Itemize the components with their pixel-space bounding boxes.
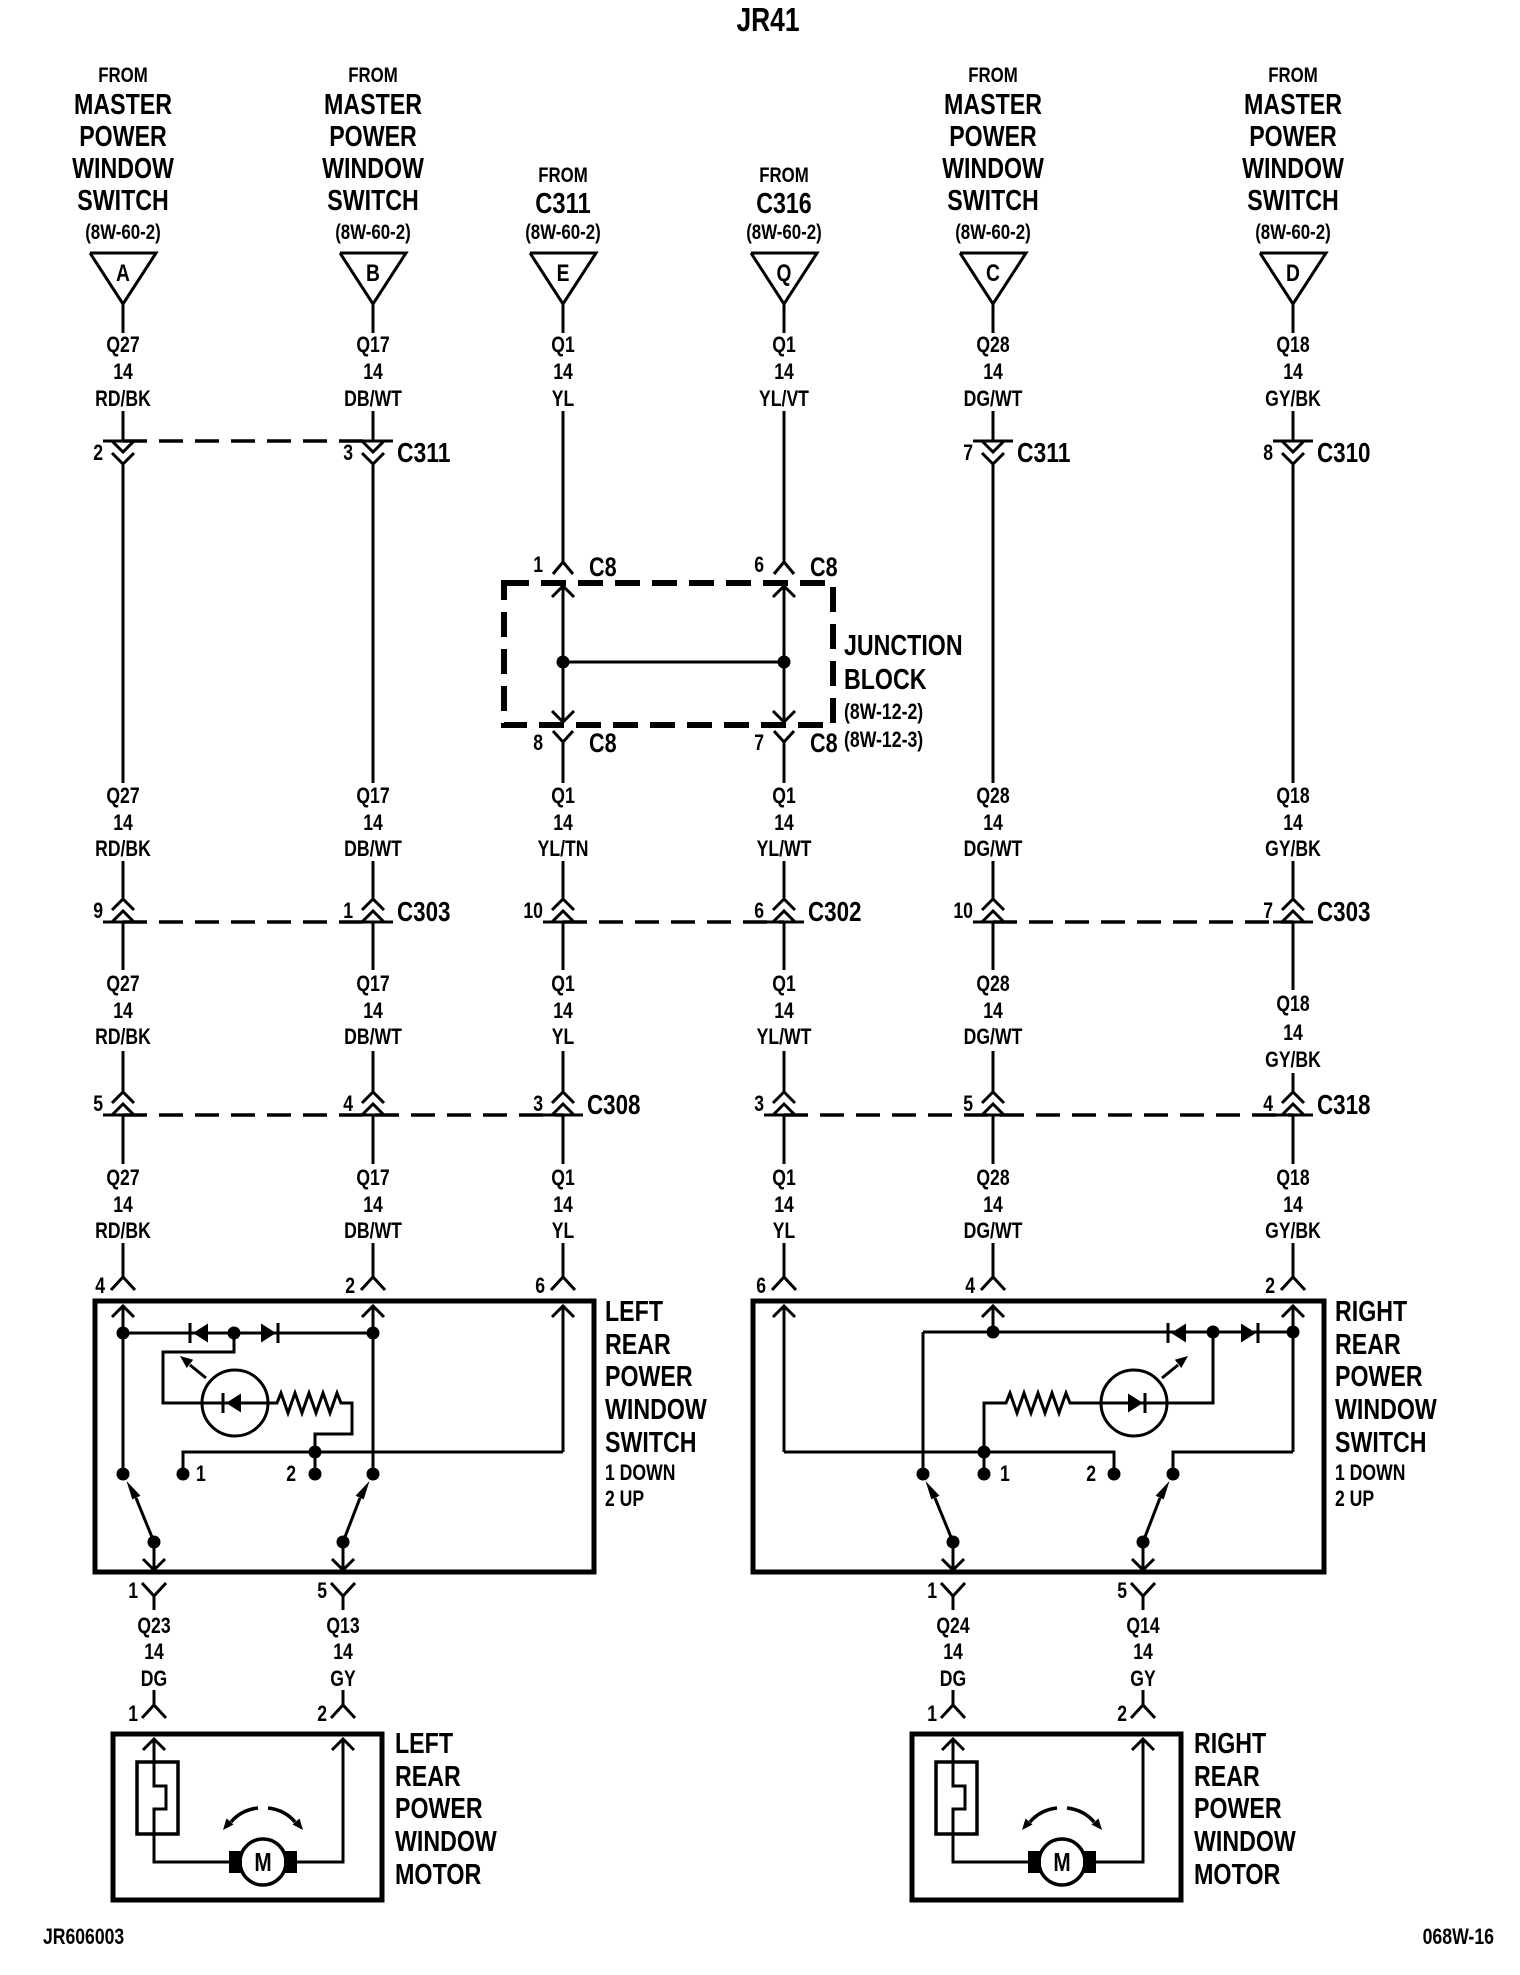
svg-text:RIGHT: RIGHT <box>1335 1296 1407 1328</box>
svg-text:DB/WT: DB/WT <box>344 386 402 411</box>
svg-text:14: 14 <box>113 359 133 384</box>
svg-text:2 UP: 2 UP <box>1335 1486 1374 1511</box>
svg-text:14: 14 <box>774 1192 794 1217</box>
svg-text:Q17: Q17 <box>356 783 389 808</box>
svg-text:6: 6 <box>535 1273 545 1298</box>
svg-text:1: 1 <box>128 1701 138 1726</box>
svg-text:WINDOW: WINDOW <box>605 1394 707 1426</box>
svg-text:14: 14 <box>943 1639 963 1664</box>
svg-text:14: 14 <box>1283 810 1303 835</box>
svg-text:Q1: Q1 <box>551 1165 575 1190</box>
svg-text:MOTOR: MOTOR <box>395 1859 481 1891</box>
svg-text:RIGHT: RIGHT <box>1194 1728 1266 1760</box>
svg-text:(8W-60-2): (8W-60-2) <box>1255 221 1331 244</box>
svg-text:DB/WT: DB/WT <box>344 1024 402 1049</box>
svg-text:Q28: Q28 <box>976 971 1009 996</box>
svg-text:WINDOW: WINDOW <box>322 153 424 185</box>
svg-text:FROM: FROM <box>538 164 588 187</box>
svg-text:A: A <box>116 260 130 287</box>
svg-text:1: 1 <box>927 1578 937 1603</box>
svg-text:2: 2 <box>1086 1461 1096 1486</box>
svg-text:FROM: FROM <box>348 64 398 87</box>
svg-text:1: 1 <box>128 1578 138 1603</box>
svg-text:LEFT: LEFT <box>395 1728 453 1760</box>
svg-text:1: 1 <box>1000 1461 1010 1486</box>
svg-text:Q27: Q27 <box>106 1165 139 1190</box>
svg-text:MASTER: MASTER <box>324 89 422 121</box>
svg-text:(8W-12-2): (8W-12-2) <box>844 699 923 724</box>
svg-text:C: C <box>986 260 1000 287</box>
svg-text:E: E <box>557 260 570 287</box>
svg-text:(8W-60-2): (8W-60-2) <box>955 221 1031 244</box>
svg-text:10: 10 <box>523 898 543 923</box>
svg-text:JUNCTION: JUNCTION <box>844 630 963 662</box>
svg-text:2: 2 <box>93 440 103 465</box>
svg-text:Q17: Q17 <box>356 971 389 996</box>
svg-text:1: 1 <box>343 898 353 923</box>
svg-text:9: 9 <box>93 898 103 923</box>
svg-text:C311: C311 <box>1017 437 1071 468</box>
svg-text:14: 14 <box>1283 359 1303 384</box>
svg-text:POWER: POWER <box>949 121 1037 153</box>
svg-text:DB/WT: DB/WT <box>344 836 402 861</box>
svg-text:14: 14 <box>363 810 383 835</box>
svg-text:6: 6 <box>756 1273 766 1298</box>
svg-text:14: 14 <box>553 359 573 384</box>
svg-text:DG/WT: DG/WT <box>964 1218 1023 1243</box>
svg-text:JR41: JR41 <box>736 1 799 38</box>
svg-text:3: 3 <box>343 440 353 465</box>
svg-text:14: 14 <box>363 1192 383 1217</box>
svg-text:SWITCH: SWITCH <box>327 185 419 217</box>
svg-text:3: 3 <box>754 1091 764 1116</box>
svg-text:WINDOW: WINDOW <box>1335 1394 1437 1426</box>
svg-text:MASTER: MASTER <box>1244 89 1342 121</box>
svg-text:C8: C8 <box>810 552 838 582</box>
svg-text:Q28: Q28 <box>976 332 1009 357</box>
svg-text:2: 2 <box>286 1461 296 1486</box>
svg-text:Q27: Q27 <box>106 332 139 357</box>
svg-text:Q1: Q1 <box>772 332 796 357</box>
svg-text:C8: C8 <box>589 552 617 582</box>
svg-text:7: 7 <box>963 440 973 465</box>
svg-text:POWER: POWER <box>1194 1793 1282 1825</box>
svg-text:MOTOR: MOTOR <box>1194 1859 1280 1891</box>
svg-text:REAR: REAR <box>605 1329 671 1361</box>
svg-text:4: 4 <box>95 1273 105 1298</box>
svg-text:YL: YL <box>552 386 575 411</box>
svg-text:068W-16: 068W-16 <box>1423 1924 1494 1949</box>
svg-text:5: 5 <box>963 1091 973 1116</box>
svg-text:5: 5 <box>1117 1578 1127 1603</box>
svg-text:14: 14 <box>774 359 794 384</box>
svg-text:C308: C308 <box>587 1089 641 1120</box>
svg-text:C318: C318 <box>1317 1089 1371 1120</box>
svg-text:2: 2 <box>317 1701 327 1726</box>
svg-text:M: M <box>254 1847 271 1877</box>
svg-text:8: 8 <box>1263 440 1273 465</box>
svg-text:B: B <box>366 260 380 287</box>
svg-text:4: 4 <box>1263 1091 1273 1116</box>
svg-text:Q28: Q28 <box>976 1165 1009 1190</box>
svg-text:MASTER: MASTER <box>944 89 1042 121</box>
svg-text:SWITCH: SWITCH <box>1247 185 1339 217</box>
svg-text:14: 14 <box>774 810 794 835</box>
svg-text:6: 6 <box>754 898 764 923</box>
svg-text:5: 5 <box>317 1578 327 1603</box>
svg-text:M: M <box>1053 1847 1070 1877</box>
svg-text:14: 14 <box>363 998 383 1023</box>
svg-text:1 DOWN: 1 DOWN <box>605 1460 675 1485</box>
svg-text:Q18: Q18 <box>1276 991 1309 1016</box>
svg-text:14: 14 <box>363 359 383 384</box>
svg-text:SWITCH: SWITCH <box>605 1427 697 1459</box>
svg-text:Q1: Q1 <box>551 971 575 996</box>
svg-text:SWITCH: SWITCH <box>77 185 169 217</box>
svg-text:SWITCH: SWITCH <box>947 185 1039 217</box>
svg-text:Q18: Q18 <box>1276 783 1309 808</box>
svg-text:JR606003: JR606003 <box>43 1924 124 1949</box>
svg-text:REAR: REAR <box>1194 1761 1260 1793</box>
svg-text:2: 2 <box>1265 1273 1275 1298</box>
svg-text:REAR: REAR <box>395 1761 461 1793</box>
svg-text:(8W-60-2): (8W-60-2) <box>525 221 601 244</box>
svg-text:SWITCH: SWITCH <box>1335 1427 1427 1459</box>
svg-text:RD/BK: RD/BK <box>95 1218 151 1243</box>
svg-text:14: 14 <box>1283 1020 1303 1045</box>
svg-text:WINDOW: WINDOW <box>942 153 1044 185</box>
svg-text:MASTER: MASTER <box>74 89 172 121</box>
svg-text:LEFT: LEFT <box>605 1296 663 1328</box>
svg-text:C303: C303 <box>1317 896 1371 927</box>
svg-text:FROM: FROM <box>968 64 1018 87</box>
svg-text:14: 14 <box>983 998 1003 1023</box>
svg-text:(8W-60-2): (8W-60-2) <box>85 221 161 244</box>
svg-text:POWER: POWER <box>395 1793 483 1825</box>
svg-text:C310: C310 <box>1317 437 1371 468</box>
svg-text:3: 3 <box>533 1091 543 1116</box>
svg-text:7: 7 <box>1263 898 1273 923</box>
svg-text:7: 7 <box>754 730 764 755</box>
svg-text:Q1: Q1 <box>772 783 796 808</box>
svg-text:Q13: Q13 <box>326 1613 359 1638</box>
svg-text:14: 14 <box>113 1192 133 1217</box>
svg-text:WINDOW: WINDOW <box>1194 1826 1296 1858</box>
svg-text:YL/WT: YL/WT <box>757 836 812 861</box>
svg-text:14: 14 <box>983 359 1003 384</box>
svg-text:14: 14 <box>774 998 794 1023</box>
svg-text:14: 14 <box>983 810 1003 835</box>
svg-text:DG: DG <box>141 1666 167 1691</box>
svg-text:YL/WT: YL/WT <box>757 1024 812 1049</box>
svg-text:YL: YL <box>552 1024 575 1049</box>
svg-text:1 DOWN: 1 DOWN <box>1335 1460 1405 1485</box>
svg-text:FROM: FROM <box>98 64 148 87</box>
svg-text:1: 1 <box>196 1461 206 1486</box>
svg-text:FROM: FROM <box>1268 64 1318 87</box>
svg-text:POWER: POWER <box>79 121 167 153</box>
svg-text:Q23: Q23 <box>137 1613 170 1638</box>
svg-text:DG/WT: DG/WT <box>964 836 1023 861</box>
svg-text:14: 14 <box>1283 1192 1303 1217</box>
svg-text:Q27: Q27 <box>106 783 139 808</box>
svg-text:GY/BK: GY/BK <box>1265 1047 1321 1072</box>
svg-text:Q28: Q28 <box>976 783 1009 808</box>
svg-text:(8W-60-2): (8W-60-2) <box>746 221 822 244</box>
svg-text:4: 4 <box>343 1091 353 1116</box>
svg-text:GY/BK: GY/BK <box>1265 386 1321 411</box>
svg-text:Q27: Q27 <box>106 971 139 996</box>
svg-text:Q1: Q1 <box>551 783 575 808</box>
svg-text:RD/BK: RD/BK <box>95 1024 151 1049</box>
svg-text:14: 14 <box>113 810 133 835</box>
svg-text:14: 14 <box>144 1639 164 1664</box>
svg-text:C8: C8 <box>589 728 617 758</box>
svg-text:C316: C316 <box>756 188 811 220</box>
svg-text:14: 14 <box>553 998 573 1023</box>
svg-text:2 UP: 2 UP <box>605 1486 644 1511</box>
svg-text:(8W-60-2): (8W-60-2) <box>335 221 411 244</box>
svg-text:BLOCK: BLOCK <box>844 664 927 696</box>
svg-text:(8W-12-3): (8W-12-3) <box>844 727 923 752</box>
svg-text:5: 5 <box>93 1091 103 1116</box>
svg-text:YL/VT: YL/VT <box>759 386 809 411</box>
svg-text:Q24: Q24 <box>936 1613 970 1638</box>
svg-text:Q17: Q17 <box>356 1165 389 1190</box>
svg-text:Q14: Q14 <box>1126 1613 1160 1638</box>
svg-text:FROM: FROM <box>759 164 809 187</box>
svg-text:WINDOW: WINDOW <box>395 1826 497 1858</box>
svg-text:8: 8 <box>533 730 543 755</box>
svg-text:GY/BK: GY/BK <box>1265 836 1321 861</box>
svg-text:YL: YL <box>773 1218 796 1243</box>
svg-text:GY: GY <box>330 1666 356 1691</box>
svg-text:POWER: POWER <box>605 1361 693 1393</box>
svg-text:C302: C302 <box>808 896 862 927</box>
svg-text:DG: DG <box>940 1666 966 1691</box>
svg-text:2: 2 <box>1117 1701 1127 1726</box>
svg-text:Q18: Q18 <box>1276 332 1309 357</box>
svg-text:WINDOW: WINDOW <box>72 153 174 185</box>
svg-text:DG/WT: DG/WT <box>964 386 1023 411</box>
svg-text:4: 4 <box>965 1273 975 1298</box>
svg-text:Q: Q <box>777 260 792 287</box>
svg-text:DB/WT: DB/WT <box>344 1218 402 1243</box>
svg-text:Q1: Q1 <box>772 971 796 996</box>
svg-text:2: 2 <box>345 1273 355 1298</box>
svg-text:GY: GY <box>1130 1666 1156 1691</box>
svg-text:C303: C303 <box>397 896 451 927</box>
svg-text:10: 10 <box>953 898 973 923</box>
svg-text:14: 14 <box>553 1192 573 1217</box>
svg-text:YL: YL <box>552 1218 575 1243</box>
svg-text:POWER: POWER <box>1335 1361 1423 1393</box>
svg-text:6: 6 <box>754 552 764 577</box>
svg-text:YL/TN: YL/TN <box>538 836 589 861</box>
svg-text:Q1: Q1 <box>551 332 575 357</box>
svg-text:POWER: POWER <box>329 121 417 153</box>
svg-text:14: 14 <box>113 998 133 1023</box>
svg-text:RD/BK: RD/BK <box>95 836 151 861</box>
svg-text:Q1: Q1 <box>772 1165 796 1190</box>
svg-text:14: 14 <box>553 810 573 835</box>
svg-text:C311: C311 <box>397 437 451 468</box>
svg-text:C311: C311 <box>535 188 590 220</box>
svg-text:Q17: Q17 <box>356 332 389 357</box>
svg-text:14: 14 <box>333 1639 353 1664</box>
svg-text:14: 14 <box>1133 1639 1153 1664</box>
svg-text:1: 1 <box>533 552 543 577</box>
svg-text:C8: C8 <box>810 728 838 758</box>
svg-text:D: D <box>1286 260 1300 287</box>
svg-text:REAR: REAR <box>1335 1329 1401 1361</box>
svg-text:DG/WT: DG/WT <box>964 1024 1023 1049</box>
svg-text:RD/BK: RD/BK <box>95 386 151 411</box>
svg-text:1: 1 <box>927 1701 937 1726</box>
svg-text:POWER: POWER <box>1249 121 1337 153</box>
svg-text:Q18: Q18 <box>1276 1165 1309 1190</box>
svg-text:GY/BK: GY/BK <box>1265 1218 1321 1243</box>
svg-text:14: 14 <box>983 1192 1003 1217</box>
svg-text:WINDOW: WINDOW <box>1242 153 1344 185</box>
